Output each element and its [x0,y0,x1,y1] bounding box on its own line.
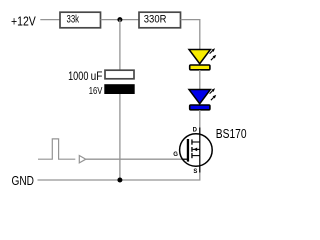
capacitor C1 bottom plate [104,84,134,94]
Q1 drain pin stub [199,128,201,143]
svg-text:GND: GND [12,173,35,188]
wire gate net [86,158,187,160]
svg-text:16V: 16V [89,85,103,97]
svg-text:33k: 33k [67,14,80,26]
svg-text:G: G [173,152,178,158]
Q1 gate plate [187,139,189,162]
svg-text:1000: 1000 [68,71,88,83]
node junction GND [117,178,122,183]
wire GND rail [38,167,200,181]
Q1 channel segment body [191,147,192,152]
svg-text:+12V: +12V [11,13,36,28]
resistor R2 330R [139,12,181,28]
transistor Q1 BS170 [173,127,212,175]
capacitor C1 top plate [105,70,134,79]
svg-text:uF: uF [91,71,103,83]
wire junction to C1 [119,20,121,70]
LED D1 yellow [189,48,216,70]
resistor R1 33k [60,12,101,28]
svg-text:BS170: BS170 [216,126,247,141]
input buffer triangle [79,156,86,163]
wire LED2 to Q1 drain [199,110,201,134]
svg-text:330R: 330R [144,14,167,26]
Q1 body link with arrow [193,148,200,150]
wire LED1 to LED2 [199,70,201,90]
wire +12V to R1 [40,19,60,21]
svg-text:S: S [193,169,197,175]
Q1 channel segment source [191,153,192,158]
wire R2 to LED1 [181,20,200,50]
node junction top [117,17,122,22]
svg-text:D: D [193,127,198,133]
Q1 gate pin stub [182,158,187,160]
wire R1 to R2 [101,19,140,21]
pulse input waveform [38,139,75,159]
Q1 source link [192,155,200,157]
LED D2 blue [189,88,216,110]
wire C1 to GND rail [119,94,121,180]
Q1 internal rail [199,142,201,156]
Q1 channel segment drain [191,139,192,144]
Q1 source pin stub [199,156,201,173]
Q1 drain link [192,141,200,143]
